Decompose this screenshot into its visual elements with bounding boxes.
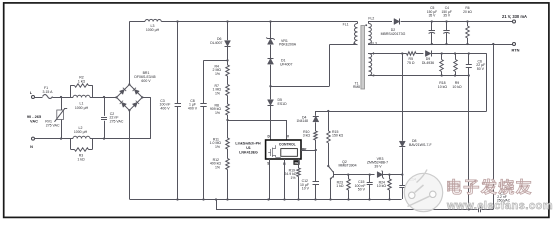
svg-text:1%: 1%: [215, 111, 220, 115]
svg-text:RTN: RTN: [512, 47, 520, 52]
svg-text:3 kΩ: 3 kΩ: [303, 134, 311, 138]
svg-text:BAV21WS-7-F: BAV21WS-7-F: [409, 143, 432, 147]
svg-text:DL4936: DL4936: [422, 61, 434, 65]
svg-text:CONTROL: CONTROL: [279, 143, 296, 147]
svg-text:FL2: FL2: [368, 16, 374, 20]
svg-text:21 V, 330 mA: 21 V, 330 mA: [502, 14, 527, 19]
svg-text:1 kΩ: 1 kΩ: [77, 157, 85, 161]
svg-text:39 V: 39 V: [374, 164, 382, 168]
svg-text:ES1D: ES1D: [278, 102, 288, 106]
svg-text:20 kΩ: 20 kΩ: [463, 10, 472, 14]
svg-text:1%: 1%: [290, 176, 295, 180]
svg-text:1%: 1%: [215, 72, 220, 76]
svg-text:1 kΩ: 1 kΩ: [78, 79, 86, 83]
svg-text:600 V: 600 V: [141, 79, 151, 83]
svg-text:35 V: 35 V: [429, 14, 437, 18]
svg-text:35 V: 35 V: [443, 14, 451, 18]
svg-text:FL1: FL1: [343, 22, 349, 26]
svg-text:1000 µH: 1000 µH: [146, 28, 160, 32]
svg-text:1%: 1%: [215, 145, 220, 149]
svg-text:1%: 1%: [215, 92, 220, 96]
svg-text:1N4148: 1N4148: [296, 119, 308, 123]
svg-text:275 VAC: 275 VAC: [46, 123, 60, 127]
svg-text:3.15 A: 3.15 A: [43, 90, 54, 94]
svg-text:LinkSwitch-PH: LinkSwitch-PH: [235, 142, 261, 146]
svg-text:50 V: 50 V: [477, 67, 485, 71]
svg-text:400 V: 400 V: [160, 107, 170, 111]
svg-text:10 kΩ: 10 kΩ: [438, 85, 448, 89]
svg-text:MMBT3904: MMBT3904: [338, 164, 356, 168]
svg-text:MBRS4201T3G: MBRS4201T3G: [381, 32, 406, 36]
svg-text:U1: U1: [246, 146, 251, 150]
svg-text:LNK413EG: LNK413EG: [239, 150, 258, 154]
svg-text:N: N: [30, 144, 33, 149]
svg-text:VAC: VAC: [30, 119, 38, 124]
svg-text:1000 µH: 1000 µH: [74, 130, 88, 134]
svg-text:10 V: 10 V: [302, 187, 310, 191]
svg-text:www.elecfans.com: www.elecfans.com: [446, 200, 553, 212]
svg-text:275 VAC: 275 VAC: [110, 119, 124, 123]
svg-text:1%: 1%: [215, 166, 220, 170]
svg-text:1000 µH: 1000 µH: [75, 106, 89, 110]
svg-text:P6KE200A: P6KE200A: [279, 43, 297, 47]
svg-text:50 V: 50 V: [358, 188, 366, 192]
svg-text:400 V: 400 V: [188, 107, 198, 111]
svg-text:1 kΩ: 1 kΩ: [336, 184, 344, 188]
svg-text:10 kΩ: 10 kΩ: [377, 184, 387, 188]
svg-text:UF4007: UF4007: [280, 62, 293, 66]
svg-text:10 kΩ: 10 kΩ: [452, 85, 462, 89]
svg-text:DL4007: DL4007: [210, 41, 222, 45]
svg-text:FB: FB: [295, 161, 299, 165]
svg-text:150 kΩ: 150 kΩ: [332, 134, 344, 138]
svg-text:75 Ω: 75 Ω: [407, 61, 415, 65]
svg-text:RM8: RM8: [353, 85, 360, 89]
